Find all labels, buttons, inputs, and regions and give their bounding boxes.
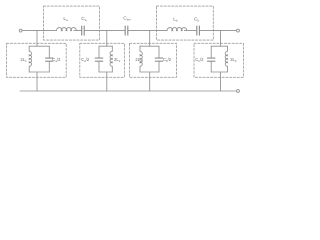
dashed box shunt resonator 4 (194, 43, 243, 77)
shunt 1 top bar (29, 45, 49, 47)
shunt 4 top bar (211, 45, 227, 47)
wire Cser to inductor Lb (128, 30, 167, 32)
shunt 3 ground stub (149, 72, 151, 91)
port P2 output terminal (237, 29, 240, 32)
inductor 2L2 shunt 3 vertical bulge right (140, 46, 142, 72)
wire Cb to port P2 (199, 30, 236, 32)
dashed box shunt resonator 1 (7, 43, 67, 77)
port P1 input terminal (19, 29, 22, 32)
shunt 2 top bar (99, 45, 112, 47)
node 1 drop wire (36, 31, 38, 47)
shunt 2 ground stub (106, 72, 108, 91)
inductor 2L1 shunt 1 vertical bulge right (29, 46, 31, 72)
inductor 2L1 shunt 2 vertical bulge left (110, 46, 112, 72)
shunt 4 bottom bar (211, 71, 227, 73)
capacitor Ca/2 shunt 1 (48, 46, 50, 72)
node 2 drop wire (106, 31, 108, 47)
shunt 1 bottom bar (29, 71, 49, 73)
wire input to inductor La (22, 30, 56, 32)
wire Ca to Cser (84, 30, 125, 32)
capacitor Cb/2 shunt 3 (158, 46, 160, 72)
shunt 4 ground stub (220, 72, 222, 91)
node 4 drop wire (220, 31, 222, 47)
dashed box series resonator A (44, 6, 100, 40)
capacitor Ca (82, 26, 85, 35)
bottom ground rail (20, 90, 236, 92)
capacitor Cb (197, 26, 200, 35)
shunt 3 bottom bar (140, 71, 159, 73)
node 3 drop wire (149, 31, 151, 47)
inductor 2L2 shunt 4 vertical bulge left (225, 46, 227, 72)
dashed box series resonator B (157, 6, 214, 40)
shunt 1 ground stub (36, 72, 38, 91)
port P2 ground terminal (237, 90, 240, 93)
wire Lb to Cb (184, 30, 196, 32)
dashed box shunt resonator 3 (129, 43, 176, 77)
wire La to Ca (74, 30, 82, 32)
capacitor Cb/2 shunt 4 (210, 46, 212, 72)
capacitor Ca/2 shunt 2 (98, 46, 100, 72)
capacitor Cser (125, 26, 128, 35)
shunt 3 top bar (140, 45, 159, 47)
inductor Lb (167, 28, 187, 31)
shunt 2 bottom bar (99, 71, 112, 73)
dashed box shunt resonator 2 (80, 43, 125, 77)
inductor La (57, 28, 77, 31)
